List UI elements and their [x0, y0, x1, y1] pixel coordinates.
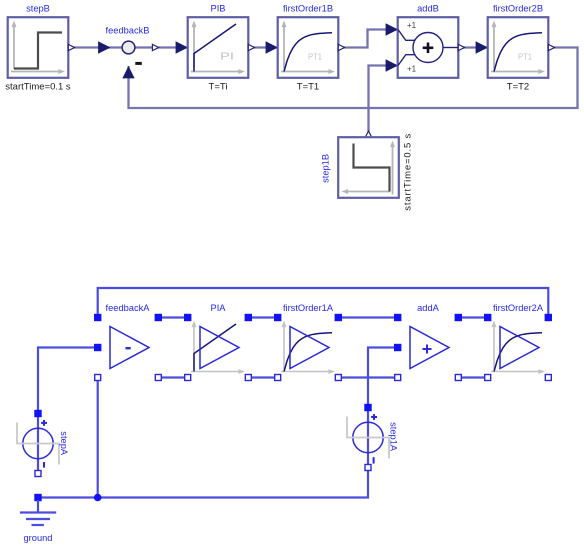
- block stepB: [8, 17, 69, 78]
- svg-text:PT1: PT1: [518, 53, 533, 62]
- op-amp feedbackA: [110, 327, 149, 369]
- pin feedbackA.p1_2: [94, 344, 101, 351]
- pin firstOrder1A.p1: [274, 314, 281, 321]
- wire firstOrder2B.y to feedbackB.u2 (feedback loop): [129, 48, 578, 109]
- svg-text:PI: PI: [220, 51, 234, 63]
- wire step1B.y to addB.u2: [369, 66, 399, 138]
- svg-text:PT1: PT1: [308, 53, 323, 62]
- svg-text:addB: addB: [417, 4, 439, 14]
- svg-text:T=Ti: T=Ti: [209, 82, 228, 93]
- wire PIA.p2 to firstOrder1A.p1: [248, 316, 277, 318]
- pin firstOrder2A.p2: [545, 314, 552, 321]
- pin stepA.p: [34, 410, 41, 417]
- op-amp PIA: [191, 321, 245, 375]
- input arrow firstOrder2B.u: [476, 41, 488, 53]
- svg-text:startTime=0.1 s: startTime=0.1 s: [5, 82, 71, 93]
- pin PIA.p1: [184, 314, 191, 321]
- block firstOrder2B: [488, 17, 549, 78]
- svg-text:feedbackB: feedbackB: [106, 26, 150, 36]
- wire ground bus: [38, 468, 368, 498]
- pin firstOrder2A.p1: [484, 314, 491, 321]
- svg-text:step1B: step1B: [320, 154, 330, 183]
- svg-text:+1: +1: [407, 21, 417, 30]
- wire addA.p2 to firstOrder2A.p1: [458, 316, 487, 318]
- minus sign feedbackB: [135, 62, 142, 65]
- op-amp firstOrder1A: [281, 321, 335, 375]
- junction node on ground bus: [94, 494, 102, 502]
- pin addA.p1_2: [394, 344, 401, 351]
- voltage source stepA: [17, 414, 59, 474]
- svg-text:stepA: stepA: [59, 431, 69, 456]
- wire PIB.y to firstOrder1B.u: [248, 46, 278, 48]
- output connector firstOrder2B.y: [548, 44, 554, 50]
- wire feedbackA.p2 to PIA.p1: [158, 316, 187, 318]
- svg-text:firstOrder1A: firstOrder1A: [283, 303, 334, 313]
- pin addA.p1: [394, 314, 401, 321]
- wire step1A.p to addA.p1_2: [368, 348, 398, 408]
- svg-text:PIA: PIA: [211, 303, 227, 313]
- wire firstOrder1B.y to addB.u1: [338, 30, 398, 48]
- svg-text:startTime=0.5 s: startTime=0.5 s: [403, 133, 414, 210]
- svg-text:step1A: step1A: [388, 422, 398, 452]
- pin feedbackA.n2: [155, 375, 161, 381]
- input arrow PIB.u: [176, 41, 188, 53]
- pin step1A.p: [364, 404, 371, 411]
- output connector feedbackB.y: [152, 44, 158, 50]
- wire firstOrder1A.p2 to addA.p1: [338, 316, 397, 318]
- block step1B (rotated 90 ccw): [338, 137, 399, 198]
- pin firstOrder1A.n1: [275, 375, 281, 381]
- input arrow addB.u2: [386, 59, 398, 71]
- pin PIA.n2: [245, 375, 251, 381]
- output connector firstOrder1B.y: [338, 44, 344, 50]
- input arrow firstOrder1B.u: [266, 41, 278, 53]
- output connector step1B.y: [365, 131, 371, 137]
- pin feedbackA.p1: [94, 314, 101, 321]
- pin stepA.n: [35, 471, 41, 477]
- wire stepA.p to feedbackA.p1_2: [38, 348, 98, 414]
- wire PIA.n2 to firstOrder1A.n1: [248, 376, 277, 378]
- wire addA.n2 to firstOrder2A.n1: [458, 376, 487, 378]
- block firstOrder1B: [278, 17, 339, 78]
- pin PIA.p2: [245, 314, 252, 321]
- wire stepB.y to feedbackB.u1: [68, 46, 122, 48]
- pin addA.p2: [455, 314, 462, 321]
- svg-text:ground: ground: [24, 533, 53, 543]
- op-amp firstOrder2A: [491, 321, 545, 375]
- pin step1A.n: [365, 465, 371, 471]
- svg-text:firstOrder2B: firstOrder2B: [493, 4, 543, 14]
- voltage source step1A: [347, 408, 389, 468]
- wire feedbackB.y to PIB.u: [135, 46, 188, 48]
- wire feedbackA.n1 to ground bus: [97, 378, 99, 498]
- pin PIA.n1: [185, 375, 191, 381]
- input arrow feedbackB.u1: [98, 41, 110, 53]
- ground: [20, 500, 56, 525]
- pin ground.p: [34, 494, 41, 501]
- pin addA.n1: [395, 375, 401, 381]
- svg-text:stepB: stepB: [26, 4, 50, 14]
- svg-text:firstOrder1B: firstOrder1B: [283, 4, 333, 14]
- summing junction feedbackB: [122, 41, 135, 54]
- input arrow feedbackB.u2: [122, 66, 134, 78]
- wire feedbackA.n2 to PIA.n1: [158, 376, 187, 378]
- svg-text:T=T1: T=T1: [297, 82, 319, 93]
- svg-text:+1: +1: [407, 64, 417, 73]
- wire addB.y to firstOrder2B.u: [458, 46, 488, 48]
- block addB: [398, 17, 459, 78]
- pin firstOrder2A.n2: [545, 375, 551, 381]
- pin firstOrder1A.p2: [335, 314, 342, 321]
- block PIB: [188, 17, 249, 78]
- svg-text:PIB: PIB: [211, 4, 226, 14]
- input arrow addB.u1: [386, 23, 398, 35]
- svg-text:firstOrder2A: firstOrder2A: [493, 303, 544, 313]
- op-amp addA: [410, 327, 449, 369]
- pin feedbackA.n1: [95, 375, 101, 381]
- svg-text:feedbackA: feedbackA: [106, 303, 151, 313]
- output connector addB.y: [458, 44, 464, 50]
- wire firstOrder1A.n2 to addA.n1: [338, 376, 397, 378]
- pin firstOrder1A.n2: [335, 375, 341, 381]
- pin firstOrder2A.n1: [485, 375, 491, 381]
- output connector stepB.y: [68, 44, 74, 50]
- output connector PIB.y: [248, 44, 254, 50]
- pin addA.n2: [455, 375, 461, 381]
- pin feedbackA.p2: [155, 314, 162, 321]
- svg-text:T=T2: T=T2: [507, 82, 529, 93]
- wire feedback loop firstOrder2A.p2 to feedbackA.p1: [98, 288, 549, 318]
- svg-text:addA: addA: [417, 303, 440, 313]
